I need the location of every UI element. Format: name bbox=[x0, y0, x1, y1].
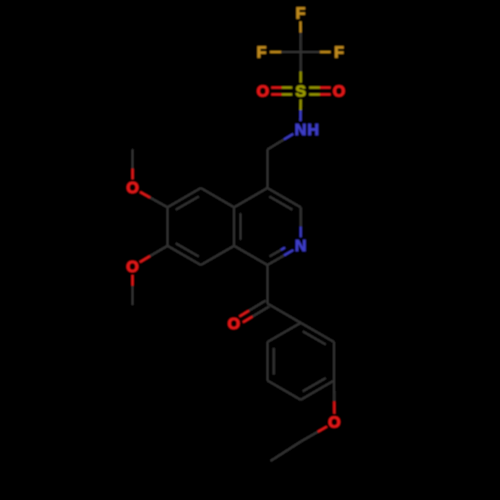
atom F3 (F) bbox=[334, 44, 344, 61]
bond C14-C15 bbox=[271, 441, 302, 461]
svg-text:O: O bbox=[333, 83, 345, 100]
bond C8a-C4a bbox=[234, 207, 240, 246]
svg-text:O: O bbox=[257, 83, 269, 100]
svg-text:N: N bbox=[295, 238, 307, 255]
atom O6 (O) bbox=[328, 415, 340, 432]
svg-text:H: H bbox=[307, 122, 319, 139]
svg-text:O: O bbox=[126, 259, 138, 276]
bond C5p-C6p bbox=[267, 342, 273, 381]
bond C9-C1p bbox=[267, 304, 300, 323]
bond O3-C12 bbox=[132, 149, 134, 179]
atom O3 (O) bbox=[126, 180, 138, 197]
bond C1p-C2p bbox=[301, 323, 334, 345]
bond N1-C11 bbox=[267, 134, 293, 150]
bond C1-C9 bbox=[266, 265, 268, 304]
atom O4 (O) bbox=[126, 259, 138, 276]
atom N2 (N) bbox=[295, 238, 307, 255]
bond C5-C6 bbox=[168, 188, 201, 210]
atom F1 (F) bbox=[296, 5, 306, 22]
bond C10-F1 bbox=[299, 22, 301, 53]
bond S-O2 bbox=[309, 88, 330, 95]
bond C10-F3 bbox=[301, 51, 331, 53]
bond C3p-O6 bbox=[333, 381, 335, 414]
svg-text:F: F bbox=[334, 44, 344, 61]
bond N2-C1 bbox=[267, 248, 293, 265]
svg-text:F: F bbox=[257, 44, 267, 61]
bond C7-C8 bbox=[168, 243, 201, 265]
bond C11-C4 bbox=[266, 150, 268, 189]
atom O1 (O) bbox=[257, 83, 269, 100]
atom F2 (F) bbox=[257, 44, 267, 61]
bond C4-C3 bbox=[267, 188, 300, 210]
bond C6-C7 bbox=[166, 207, 168, 246]
atom N1 (NH) bbox=[295, 122, 319, 139]
bond C3p-C4p bbox=[301, 378, 334, 400]
bond C4a-C5 bbox=[201, 188, 234, 207]
atom O5 (O) bbox=[228, 316, 240, 333]
bond C10-F2 bbox=[270, 51, 301, 53]
atom O2 (O) bbox=[333, 83, 345, 100]
bond C9-O5 bbox=[239, 301, 269, 323]
svg-text:O: O bbox=[126, 180, 138, 197]
bond C4p-C5p bbox=[267, 381, 300, 400]
svg-text:N: N bbox=[295, 122, 307, 139]
svg-text:S: S bbox=[295, 83, 306, 100]
bond C2p-C3p bbox=[333, 342, 335, 381]
bond S-O1 bbox=[271, 88, 292, 95]
svg-text:O: O bbox=[228, 316, 240, 333]
bond O4-C13 bbox=[131, 275, 133, 305]
bond C4a-C4 bbox=[234, 188, 267, 207]
svg-text:O: O bbox=[328, 415, 340, 432]
svg-text:F: F bbox=[296, 5, 306, 22]
bond C8-C8a bbox=[201, 246, 234, 265]
bond C7-O4 bbox=[140, 246, 168, 262]
bond C1-C8a bbox=[234, 246, 267, 265]
bond C6-O3 bbox=[140, 192, 168, 207]
bond C6p-C1p bbox=[267, 323, 300, 342]
bond O6-C14 bbox=[301, 427, 327, 442]
bond C3-N2 bbox=[300, 207, 302, 237]
bond S-N1 bbox=[299, 100, 301, 122]
bond C10-S bbox=[300, 52, 302, 83]
atom S (S) bbox=[295, 83, 306, 100]
